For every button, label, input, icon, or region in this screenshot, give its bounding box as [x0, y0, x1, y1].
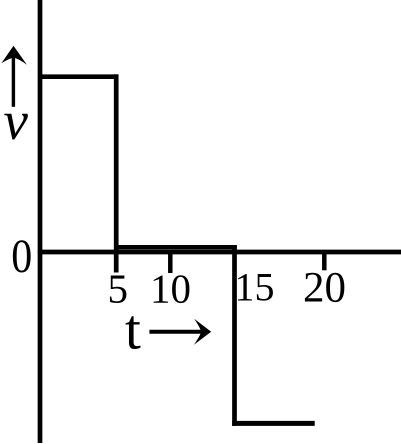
step segment 3 (v negative, bottom) [232, 421, 315, 426]
x-axis (t axis) [38, 250, 401, 255]
svg-text:20: 20 [303, 265, 346, 312]
tick 10 [168, 251, 173, 273]
svg-text:10: 10 [150, 266, 191, 312]
step segment 1 (v high, t=0..5) [40, 74, 118, 79]
t-axis arrow (right arrow) [149, 319, 211, 345]
tick 20 [322, 251, 327, 270]
v-axis arrow (up arrow) [1, 46, 27, 107]
step drop 1 at t=5 (also tick 5) [114, 74, 119, 272]
y-axis (v axis) [38, 0, 43, 443]
svg-text:v: v [4, 90, 29, 151]
step segment 2 (v just above zero, t=5..14) [114, 245, 237, 249]
step drop 2 at t=14 [232, 245, 237, 426]
svg-text:0: 0 [11, 230, 32, 283]
svg-text:t: t [125, 299, 141, 362]
svg-text:15: 15 [235, 265, 275, 310]
